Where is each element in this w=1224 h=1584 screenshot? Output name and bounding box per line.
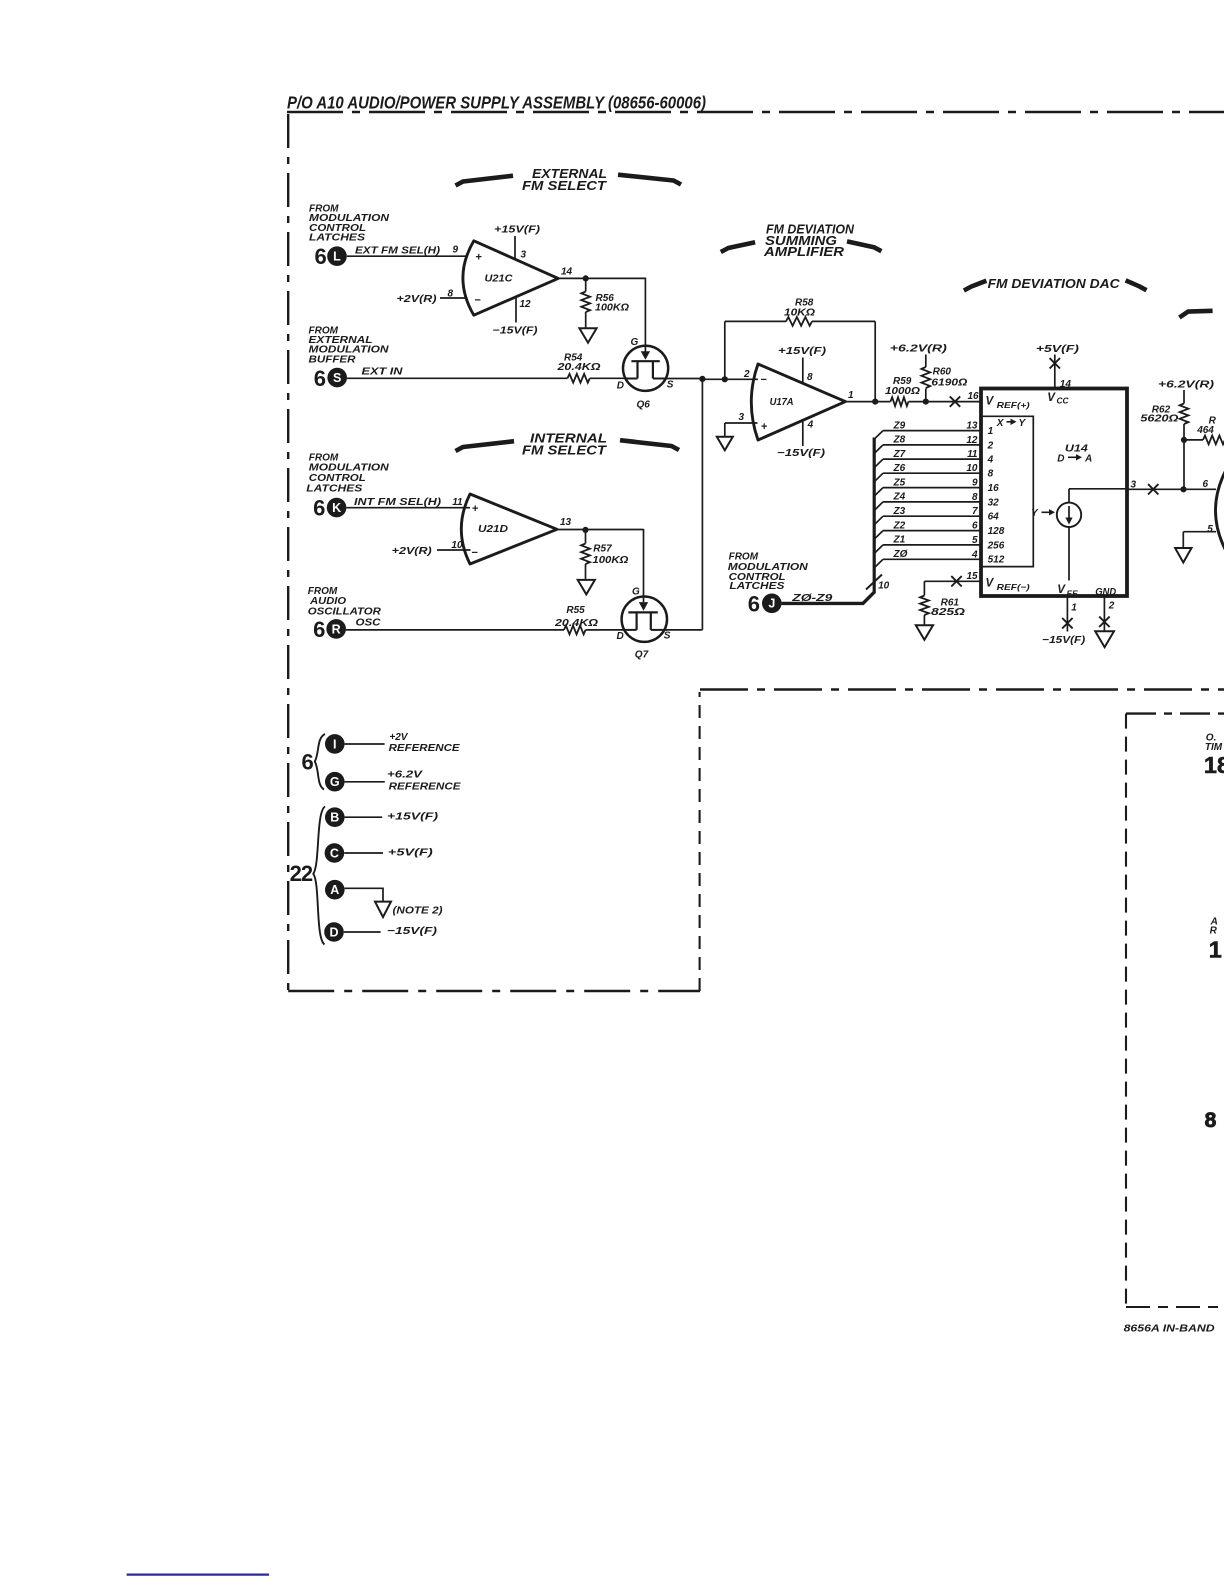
bus width tick 10 <box>866 575 882 590</box>
junction Q6/Q7 outputs <box>699 376 705 382</box>
svg-text:R60: R60 <box>933 367 952 378</box>
assembly outline P/O A10 (dash-dot border) <box>287 111 1224 114</box>
svg-text:6: 6 <box>1203 479 1209 490</box>
op-amp U21C <box>463 241 558 315</box>
current source symbol (DAC output) <box>1057 503 1081 527</box>
wire EXT IN <box>347 377 568 379</box>
svg-text:2: 2 <box>1108 600 1115 611</box>
svg-text:U21C: U21C <box>485 274 514 285</box>
svg-text:−15V(F): −15V(F) <box>493 326 539 337</box>
svg-text:+5V(F): +5V(F) <box>1036 344 1080 355</box>
wire bit ZØ to DAC pin 4 <box>874 559 883 568</box>
svg-text:EXT FM SEL(H): EXT FM SEL(H) <box>355 245 441 256</box>
svg-text:20.4KΩ: 20.4KΩ <box>554 618 598 629</box>
svg-text:+: + <box>472 503 478 515</box>
wire +2V(R) to U21D pin 10 <box>437 549 471 551</box>
junction output/feedback <box>872 399 878 405</box>
svg-text:V: V <box>1047 392 1056 404</box>
junction output/R62 <box>1180 486 1186 492</box>
connector 22-D <box>324 922 344 942</box>
svg-text:+15V(F): +15V(F) <box>494 225 541 236</box>
transistor Q7 (JFET) <box>622 597 667 642</box>
ground below R56 <box>579 328 596 343</box>
svg-text:6190Ω: 6190Ω <box>931 377 967 388</box>
svg-text:R57: R57 <box>593 544 612 555</box>
svg-text:3: 3 <box>521 250 527 261</box>
wire bit Z2 to DAC pin 6 <box>874 531 883 540</box>
svg-text:R55: R55 <box>566 605 585 616</box>
svg-text:825Ω: 825Ω <box>931 607 965 618</box>
svg-text:6: 6 <box>314 366 326 391</box>
junction at U21C output <box>583 275 589 281</box>
svg-text:4: 4 <box>807 419 814 430</box>
svg-text:16: 16 <box>968 391 980 402</box>
svg-text:Z9: Z9 <box>893 420 906 431</box>
svg-text:FM SELECT: FM SELECT <box>522 178 607 193</box>
svg-text:−15V(F): −15V(F) <box>387 926 438 937</box>
resistor R59 1000ohm <box>891 397 909 406</box>
wire R54 to Q6 drain <box>590 377 626 379</box>
svg-text:8: 8 <box>448 288 454 299</box>
wire current source to VEE <box>1068 527 1070 581</box>
svg-text:S: S <box>333 371 341 385</box>
svg-text:6: 6 <box>313 496 325 521</box>
wire OSC <box>346 629 564 631</box>
partial section bracket (clipped at right edge) <box>1179 311 1212 318</box>
section label INTERNAL FM SELECT <box>456 441 515 451</box>
svg-text:Q7: Q7 <box>635 650 649 661</box>
svg-text:LATCHES: LATCHES <box>309 232 365 243</box>
resistor R55 20.4K <box>564 626 586 635</box>
svg-text:14: 14 <box>1060 379 1072 390</box>
svg-text:B: B <box>330 811 339 825</box>
wire Q6 source to summing node <box>666 378 703 380</box>
connector 22-A <box>325 880 345 900</box>
wire +6.2V REFERENCE <box>345 781 385 783</box>
wire bit Z5 to DAC pin 9 <box>874 488 883 497</box>
svg-text:3: 3 <box>739 412 745 423</box>
bus Z0-Z9 from 6J <box>782 602 863 605</box>
connector 22-B <box>325 807 345 827</box>
svg-text:(NOTE 2): (NOTE 2) <box>393 906 444 917</box>
svg-text:15: 15 <box>967 571 979 582</box>
svg-text:A: A <box>1084 454 1092 465</box>
svg-text:10: 10 <box>966 463 978 474</box>
svg-text:AMPLIFIER: AMPLIFIER <box>763 244 845 259</box>
svg-text:464: 464 <box>1196 425 1214 436</box>
svg-text:V: V <box>986 578 995 590</box>
resistor R54 20.4K <box>568 374 590 383</box>
resistor R58 10K (feedback) <box>786 317 812 326</box>
svg-text:C: C <box>330 846 339 860</box>
svg-text:8: 8 <box>988 469 994 480</box>
wire INT FM SEL(H) to U21D pin 11 <box>347 507 471 509</box>
wire R59 to DAC VREF(+) <box>909 401 982 403</box>
svg-text:7: 7 <box>972 506 978 517</box>
svg-text:R: R <box>332 622 341 636</box>
wire R55 to Q7 drain <box>586 629 625 631</box>
junction at U21D output <box>582 527 588 533</box>
wire U21D output to Q7 gate <box>643 529 645 602</box>
wire Q7 source riser <box>701 379 703 630</box>
svg-text:1: 1 <box>848 390 854 401</box>
svg-text:6: 6 <box>748 592 760 617</box>
svg-text:V: V <box>1057 584 1066 596</box>
svg-text:18: 18 <box>1204 752 1224 778</box>
svg-text:+2V: +2V <box>389 732 408 743</box>
svg-text:U21D: U21D <box>478 524 508 535</box>
-15V(F) supply at U17A pin 4 <box>802 420 804 446</box>
svg-text:13: 13 <box>560 517 572 528</box>
junction R62/R63 <box>1181 437 1187 443</box>
svg-text:G: G <box>632 587 640 598</box>
svg-text:X: X <box>996 418 1005 429</box>
svg-text:4: 4 <box>971 549 978 560</box>
svg-text:K: K <box>332 501 341 515</box>
svg-text:Z1: Z1 <box>893 535 906 546</box>
svg-text:+6.2V: +6.2V <box>387 769 424 780</box>
svg-text:CONTROL: CONTROL <box>309 473 366 484</box>
svg-text:G: G <box>631 337 639 348</box>
svg-text:D: D <box>329 925 338 939</box>
junction R59/R60 <box>923 399 929 405</box>
svg-text:ZØ-Z9: ZØ-Z9 <box>791 593 833 604</box>
svg-text:10KΩ: 10KΩ <box>784 308 815 319</box>
svg-text:+2V(R): +2V(R) <box>392 546 433 557</box>
svg-text:Q6: Q6 <box>637 400 651 411</box>
svg-text:Z5: Z5 <box>893 477 906 488</box>
wire bit Z9 to DAC pin 13 <box>874 431 883 440</box>
svg-text:OSC: OSC <box>356 618 382 629</box>
svg-text:9: 9 <box>453 245 459 256</box>
connector group 6 brace <box>315 734 325 790</box>
svg-text:I: I <box>333 737 336 751</box>
resistor R62 5620ohm <box>1180 404 1189 425</box>
svg-text:R: R <box>1210 926 1218 937</box>
svg-text:+6.2V(R): +6.2V(R) <box>1158 379 1215 390</box>
svg-text:64: 64 <box>988 512 1000 523</box>
svg-text:Z3: Z3 <box>893 506 906 517</box>
wire bit Z3 to DAC pin 7 <box>874 516 883 525</box>
svg-text:1: 1 <box>1071 602 1077 613</box>
svg-text:5: 5 <box>972 535 978 546</box>
svg-text:+6.2V(R): +6.2V(R) <box>890 343 948 354</box>
svg-text:4: 4 <box>987 455 994 466</box>
second assembly outline (lower right, clipped) <box>1126 712 1224 714</box>
svg-text:9: 9 <box>972 478 978 489</box>
svg-text:12: 12 <box>966 435 978 446</box>
svg-text:D: D <box>1057 454 1064 465</box>
connector 6-G <box>325 772 345 792</box>
svg-text:+5V(F): +5V(F) <box>388 847 434 858</box>
svg-text:FM DEVIATION DAC: FM DEVIATION DAC <box>988 276 1121 291</box>
svg-text:6: 6 <box>972 521 978 532</box>
svg-text:S: S <box>664 630 671 641</box>
svg-text:GND: GND <box>1095 587 1116 598</box>
wire VREF(-) from R61 to DAC pin 15 <box>924 580 981 582</box>
wire -15V(F) <box>344 931 381 933</box>
svg-text:+: + <box>761 421 767 433</box>
svg-text:32: 32 <box>988 497 1000 508</box>
svg-text:LATCHES: LATCHES <box>729 581 784 592</box>
feedback wire to output <box>812 320 875 322</box>
svg-text:−: − <box>472 547 478 559</box>
svg-text:FM SELECT: FM SELECT <box>522 443 607 458</box>
svg-text:100KΩ: 100KΩ <box>592 555 628 566</box>
ground at 22-A <box>375 902 391 918</box>
svg-text:S: S <box>667 380 674 391</box>
svg-text:+15V(F): +15V(F) <box>778 346 827 357</box>
svg-text:22: 22 <box>290 861 313 886</box>
svg-text:INT FM SEL(H): INT FM SEL(H) <box>354 497 442 508</box>
svg-text:128: 128 <box>988 526 1005 537</box>
wire summing node to U17A pin 2 <box>702 378 758 380</box>
svg-text:+: + <box>476 252 482 264</box>
svg-text:U17A: U17A <box>770 397 794 408</box>
wire +2V(R) to U21C pin 8 <box>440 297 468 299</box>
wire bit Z1 to DAC pin 5 <box>874 545 883 554</box>
svg-text:−: − <box>761 374 767 386</box>
svg-text:2: 2 <box>743 369 750 380</box>
svg-text:1: 1 <box>988 426 994 437</box>
svg-text:+2V(R): +2V(R) <box>397 294 438 305</box>
svg-text:AUDIO: AUDIO <box>309 596 346 607</box>
connector 22-C <box>325 843 345 863</box>
svg-text:14: 14 <box>561 266 573 277</box>
wire bit Z8 to DAC pin 12 <box>874 445 883 454</box>
svg-text:2: 2 <box>987 440 994 451</box>
svg-text:1000Ω: 1000Ω <box>885 386 920 397</box>
svg-text:REFERENCE: REFERENCE <box>389 743 460 754</box>
svg-text:16: 16 <box>988 483 1000 494</box>
wire current source to pin 3 <box>1068 489 1070 503</box>
blue underline mark at page bottom <box>127 1573 269 1575</box>
wire bit Z7 to DAC pin 11 <box>874 459 883 468</box>
svg-text:OSCILLATOR: OSCILLATOR <box>308 606 382 617</box>
connector group 22 brace <box>313 807 325 945</box>
op-amp U21D <box>461 494 557 564</box>
svg-text:Z2: Z2 <box>893 520 906 531</box>
svg-text:REF(+): REF(+) <box>997 400 1030 410</box>
svg-text:ZØ: ZØ <box>893 549 909 560</box>
wire 22-A to ground (NOTE 2) <box>345 888 383 901</box>
svg-text:−: − <box>475 295 481 307</box>
resistor R61 825ohm <box>923 581 925 595</box>
ground below R57 <box>578 580 595 595</box>
svg-text:256: 256 <box>987 540 1005 551</box>
svg-text:11: 11 <box>967 449 978 460</box>
svg-text:1: 1 <box>1209 936 1222 962</box>
svg-text:13: 13 <box>966 421 978 432</box>
svg-text:BUFFER: BUFFER <box>309 354 357 365</box>
resistor R57 100K <box>585 530 587 544</box>
svg-text:J: J <box>768 597 775 611</box>
svg-text:L: L <box>333 250 341 264</box>
svg-text:P/O A10 AUDIO/POWER SUPPLY ASS: P/O A10 AUDIO/POWER SUPPLY ASSEMBLY (086… <box>287 93 706 113</box>
svg-text:6: 6 <box>315 244 327 269</box>
svg-text:REFERENCE: REFERENCE <box>389 781 461 792</box>
svg-text:10: 10 <box>878 581 890 592</box>
svg-text:6: 6 <box>302 750 314 775</box>
svg-text:100KΩ: 100KΩ <box>595 303 629 314</box>
connector 6-I <box>325 734 345 754</box>
svg-text:Z8: Z8 <box>893 435 906 446</box>
wire bit Z4 to DAC pin 8 <box>874 502 883 511</box>
transistor Q6 (JFET) <box>623 346 668 391</box>
-15V(F) supply at U21C pin 12 <box>515 298 517 323</box>
wire EXT FM SEL(H) to U21C pin 9 <box>347 255 467 257</box>
svg-text:20.4KΩ: 20.4KΩ <box>556 362 600 373</box>
resistor R63 (clipped at page edge) <box>1184 439 1203 441</box>
op-amp U17A <box>751 364 845 440</box>
svg-text:6: 6 <box>313 617 325 642</box>
svg-text:Z6: Z6 <box>893 463 906 474</box>
svg-text:8: 8 <box>972 492 978 503</box>
ground below GND pin <box>1095 631 1114 647</box>
ground at U17A pin 3 <box>725 422 758 424</box>
svg-text:MODULATION: MODULATION <box>309 463 390 474</box>
wire U21C output to Q6 gate <box>644 278 646 352</box>
feedback loop wire (U17A) <box>724 321 726 379</box>
svg-text:12: 12 <box>520 299 532 310</box>
svg-text:+15V(F): +15V(F) <box>387 812 439 823</box>
wire bit Z6 to DAC pin 10 <box>874 473 883 482</box>
off-page tick on VREF(+) wire <box>950 396 960 406</box>
DAC U14 box <box>981 389 1127 597</box>
resistor R56 100K <box>585 278 587 291</box>
svg-text:D: D <box>617 380 624 391</box>
svg-text:G: G <box>330 775 340 789</box>
junction feedback/input <box>722 376 728 382</box>
svg-text:−15V(F): −15V(F) <box>1042 635 1086 646</box>
svg-text:8: 8 <box>1205 1109 1217 1132</box>
svg-text:8: 8 <box>807 372 813 383</box>
svg-text:Z4: Z4 <box>893 492 906 503</box>
svg-text:REF(−): REF(−) <box>997 582 1030 592</box>
svg-text:−15V(F): −15V(F) <box>777 448 826 459</box>
wire +5V(F) <box>344 852 383 854</box>
svg-text:512: 512 <box>988 555 1005 566</box>
wire +2V REFERENCE <box>345 743 385 745</box>
svg-text:V: V <box>986 396 995 408</box>
svg-text:D: D <box>617 631 624 642</box>
svg-text:5620Ω: 5620Ω <box>1140 414 1178 425</box>
svg-text:5: 5 <box>1207 524 1213 535</box>
section label EXTERNAL FM SELECT <box>456 176 514 186</box>
svg-text:FROM: FROM <box>729 551 759 562</box>
svg-text:8656A IN-BAND: 8656A IN-BAND <box>1124 1324 1215 1335</box>
resistor R60 6190ohm <box>921 367 930 388</box>
svg-text:CC: CC <box>1057 396 1070 406</box>
svg-text:A: A <box>330 883 339 897</box>
DAC inner logic box X->Y <box>981 416 1033 566</box>
svg-text:LATCHES: LATCHES <box>306 484 362 495</box>
wire +15V(F) <box>345 816 383 818</box>
svg-text:Z7: Z7 <box>893 449 906 460</box>
ground below R61 <box>916 625 933 640</box>
section label FM DEVIATION DAC <box>964 281 987 291</box>
svg-text:11: 11 <box>452 497 463 508</box>
ground at pin 5 <box>1175 548 1191 563</box>
svg-text:EXT IN: EXT IN <box>362 366 404 377</box>
